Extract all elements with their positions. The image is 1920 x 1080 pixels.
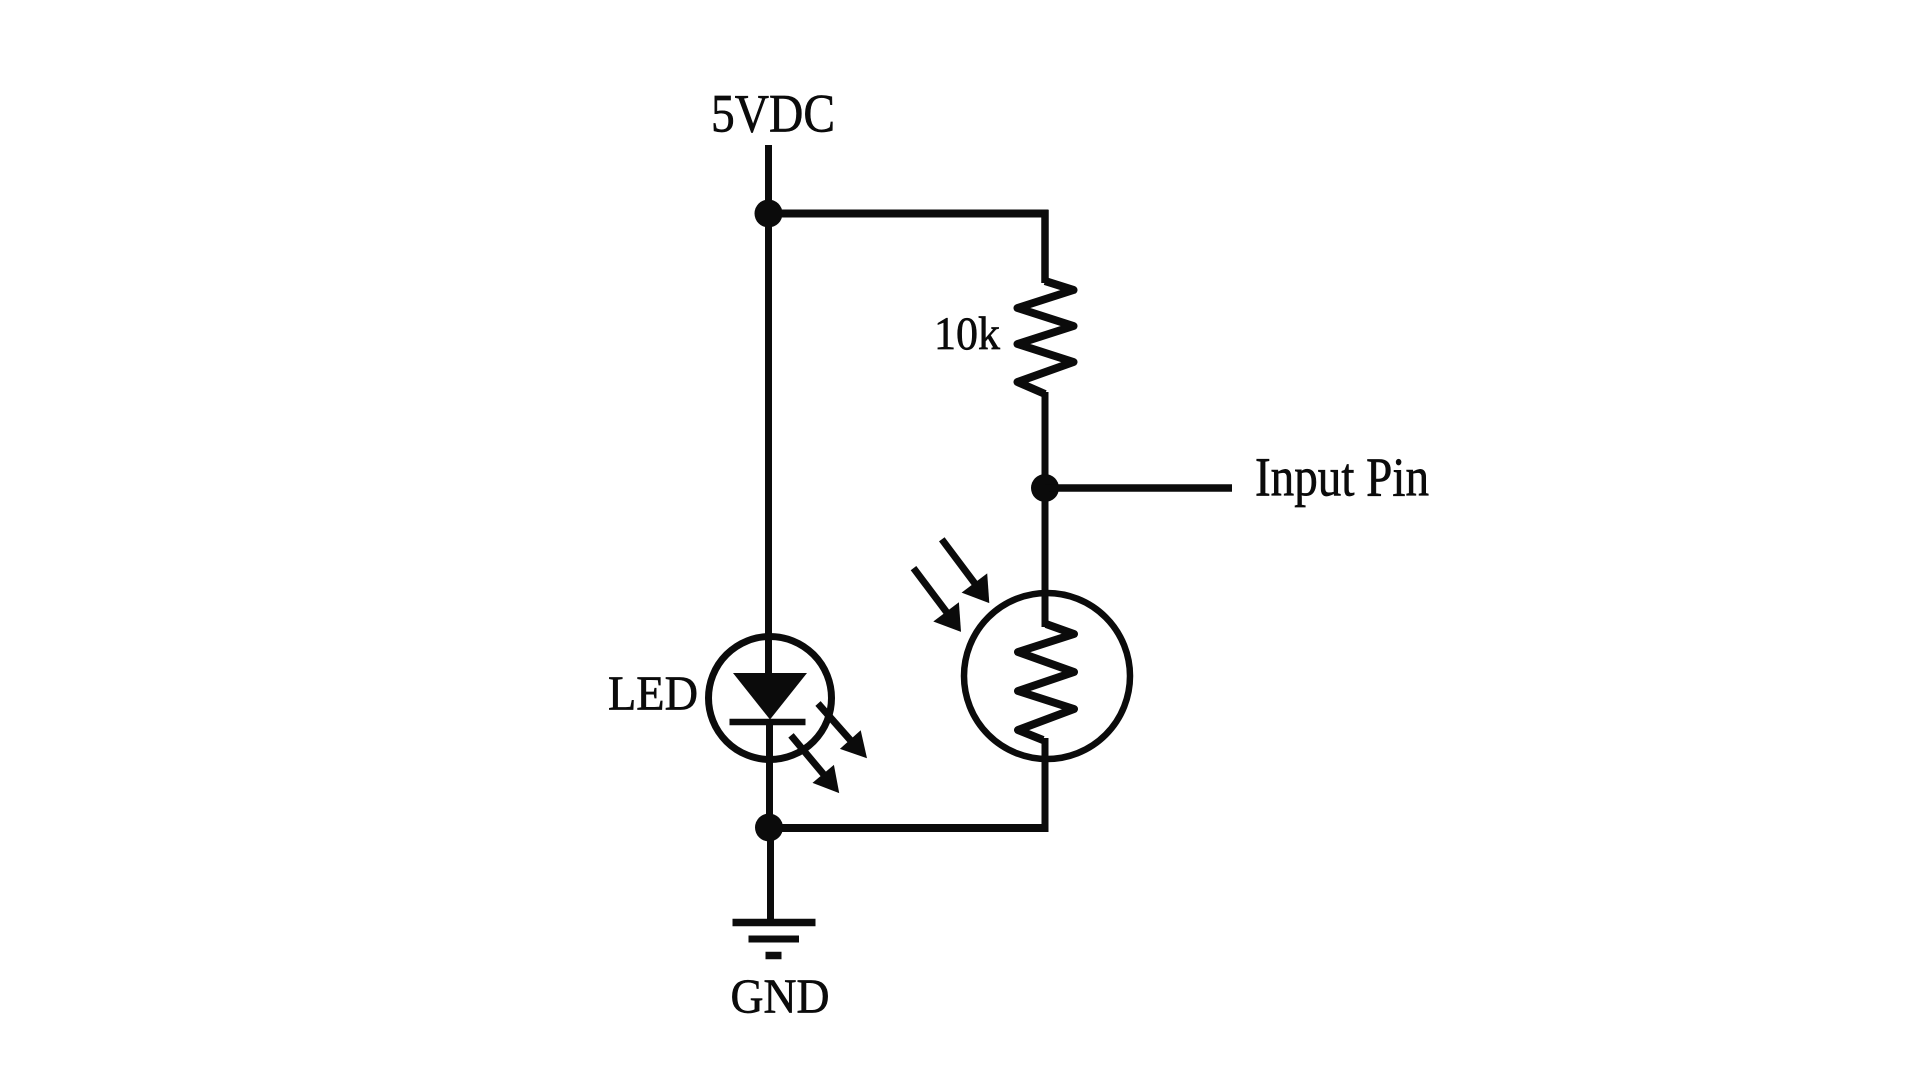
light arrow A1 into LDR [942,539,990,603]
resistor R1 10k zigzag [1018,281,1074,394]
LED anode triangle [733,673,807,720]
svg-text:5VDC: 5VDC [711,84,835,144]
svg-text:GND: GND [731,969,830,1024]
ground symbol bar 2 [749,936,800,943]
ground symbol bar 3 [766,952,782,960]
svg-text:10k: 10k [934,308,1000,360]
svg-text:Input Pin: Input Pin [1255,447,1429,508]
wire: bottom horizontal from LED junction to LDR branch [768,824,1049,832]
wire: right rail down to resistor top [1041,210,1049,283]
wire: 5VDC lead down to top junction [765,145,772,213]
wire: bottom junction down to ground [767,828,774,921]
photoresistor LDR zigzag [1018,624,1074,740]
light arrow A2 into LDR [914,568,962,632]
wire: top horizontal from junction to resistor branch [768,210,1049,218]
wire: junction down into photoresistor [1042,488,1049,627]
photoresistor LDR circle [964,593,1130,759]
wire: resistor bottom to input-pin junction [1042,392,1049,490]
LED light arrow B2 [791,735,839,793]
wire: left rail from top junction down to LED [765,213,772,676]
LED cathode bar [730,719,806,726]
wire: LED cathode down to bottom junction [766,719,773,832]
wire: stub to Input Pin label [1045,484,1232,492]
node: top junction dot [755,200,783,228]
node: input pin junction dot [1031,474,1059,502]
svg-text:LED: LED [608,666,698,721]
LED light arrow B1 [818,704,867,759]
ground symbol bar 1 [733,919,816,927]
wire: LDR bottom to lower corner [1042,738,1049,832]
node: bottom junction dot [755,814,783,842]
LED circle [709,637,832,760]
